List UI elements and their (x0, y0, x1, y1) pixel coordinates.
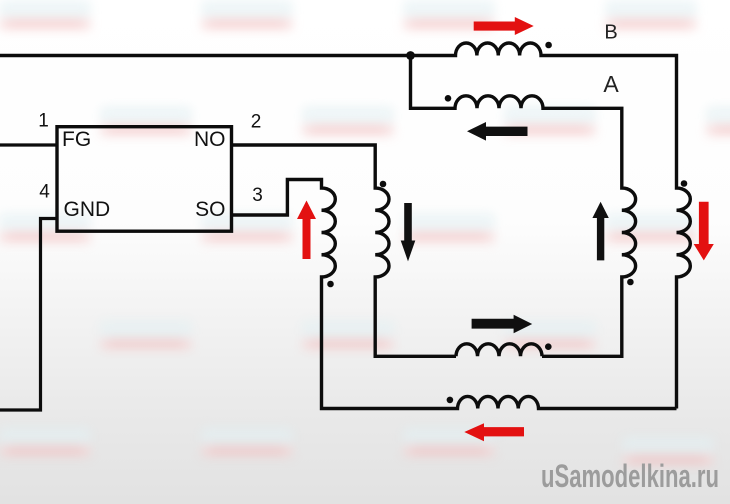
svg-text:A: A (603, 71, 619, 97)
svg-text:2: 2 (251, 112, 262, 133)
svg-text:uSamodelkina.ru: uSamodelkina.ru (541, 458, 719, 494)
svg-text:B: B (604, 22, 617, 44)
svg-text:FG: FG (62, 128, 91, 151)
svg-text:1: 1 (38, 111, 49, 132)
svg-text:4: 4 (39, 182, 50, 203)
svg-text:SO: SO (195, 198, 225, 221)
svg-text:GND: GND (64, 198, 111, 221)
svg-text:3: 3 (252, 185, 263, 206)
svg-text:NO: NO (194, 128, 226, 151)
